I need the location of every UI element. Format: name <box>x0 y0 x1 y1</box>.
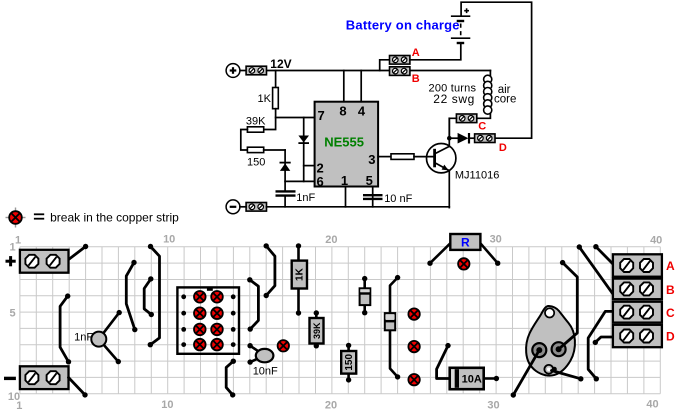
svg-text:D: D <box>666 329 675 343</box>
resistor 39K on board <box>310 310 324 348</box>
svg-text:6: 6 <box>317 174 324 189</box>
svg-text:7: 7 <box>318 108 325 123</box>
wire 150 to diode D2 node <box>264 149 285 151</box>
break in socket left row 3 <box>194 324 206 336</box>
capacitor C2 10nF <box>363 195 383 199</box>
svg-text:core: core <box>494 94 516 106</box>
svg-text:30: 30 <box>490 234 502 246</box>
wire link block D to (36,7) <box>593 337 613 345</box>
diode D1 (points right) <box>458 133 469 144</box>
svg-text:C: C <box>666 306 675 320</box>
svg-text:B: B <box>666 283 675 297</box>
wire base resistor to Q1 <box>414 156 433 158</box>
node 12V supply rail (wire) <box>240 70 246 72</box>
break in socket left row 2 <box>194 307 206 319</box>
wire C block to collector node <box>449 118 456 138</box>
wire pin 7 feed <box>276 117 315 119</box>
wire pin 8 to rail <box>343 71 345 102</box>
wire diode D2 branch vertical <box>284 150 286 190</box>
diode D3 (points down) <box>298 136 309 144</box>
wire link (13,8)-(13,10) <box>226 359 236 398</box>
board terminal block - input <box>20 366 69 389</box>
svg-text:10: 10 <box>163 234 175 246</box>
svg-text:12V: 12V <box>270 57 291 71</box>
wire link to fuse <box>437 343 451 379</box>
resistor 39K (horizontal) <box>247 127 263 132</box>
wire A to battery <box>410 44 461 60</box>
svg-text:1: 1 <box>341 173 348 188</box>
resistor base (pin3) <box>391 154 414 160</box>
svg-text:10nF: 10nF <box>253 366 278 378</box>
break at (28,2) <box>458 258 469 269</box>
wire 12V rail <box>267 70 491 72</box>
svg-text:1K: 1K <box>295 267 306 281</box>
terminal - (negative supply) <box>226 200 240 214</box>
wire collector to node <box>448 118 450 146</box>
wire link (15,3)-(15,6) <box>247 277 258 332</box>
break in socket right row 2 <box>211 307 223 319</box>
wire ground rail <box>267 206 450 208</box>
svg-text:Battery on charge: Battery on charge <box>346 18 460 33</box>
wire diode D3 branch vertical <box>303 118 305 182</box>
wire diode D1 to D block <box>470 137 475 139</box>
svg-text:150: 150 <box>247 157 265 169</box>
resistor 150 (horizontal) <box>247 147 263 152</box>
node collector junction <box>447 136 452 141</box>
wire collector to (34,2) <box>559 260 578 349</box>
svg-text:R: R <box>461 236 470 250</box>
svg-text:39K: 39K <box>246 116 266 128</box>
svg-text:NE555: NE555 <box>324 135 364 150</box>
board label + <box>6 256 16 266</box>
svg-text:1: 1 <box>10 242 16 254</box>
break in socket right row 3 <box>211 324 223 336</box>
wire coil to C block <box>477 114 490 119</box>
svg-text:1: 1 <box>15 235 21 247</box>
break at (25,5) <box>408 308 419 319</box>
diode on board col22 <box>360 276 371 316</box>
IC U1 NE555 body <box>315 102 379 187</box>
svg-text:22 swg: 22 swg <box>433 92 475 106</box>
svg-text:10: 10 <box>8 391 20 403</box>
wire emitter to ground <box>448 171 450 208</box>
wire link (36,1) to block A <box>593 244 612 264</box>
wire link -block to (5,10) <box>69 378 88 398</box>
resistor 1K (vertical) <box>273 88 279 109</box>
break at (25,7) <box>408 341 419 352</box>
svg-text:3: 3 <box>368 152 375 167</box>
break in socket left row 4 <box>194 339 206 351</box>
diode on board col24 <box>385 275 401 380</box>
svg-text:20: 20 <box>325 400 337 412</box>
wire link (9,1)-(9,7) <box>148 244 160 348</box>
svg-text:B: B <box>412 73 420 85</box>
wire pin 1 to ground <box>345 187 347 207</box>
svg-text:4: 4 <box>358 104 366 119</box>
svg-text:5: 5 <box>366 173 373 188</box>
wire pin 5 to cap <box>372 187 374 207</box>
capacitor C1 1nF <box>276 191 296 195</box>
terminal block C <box>456 114 476 123</box>
svg-text:10 nF: 10 nF <box>384 193 412 205</box>
svg-text:MJ11016: MJ11016 <box>455 170 499 182</box>
wire 39K to 150 <box>241 130 248 151</box>
terminal block D <box>475 134 495 143</box>
resistor 1K on board <box>292 243 307 315</box>
board terminal block + input <box>20 250 69 273</box>
svg-text:break in the copper strip: break in the copper strip <box>50 211 179 225</box>
svg-text:D: D <box>499 142 507 154</box>
svg-text:1K: 1K <box>258 93 272 105</box>
wire link (8,2)-(8,6) <box>126 260 137 333</box>
break in socket right row 4 <box>211 339 223 351</box>
inductor L1 air core coil <box>484 75 492 114</box>
wire link (9,3)-(9,5) <box>144 276 154 317</box>
svg-text:1nF: 1nF <box>296 192 315 204</box>
transistor Q1 MJ11016 <box>427 144 456 173</box>
IC socket NE555 on board <box>177 287 239 353</box>
svg-text:10: 10 <box>161 399 173 411</box>
board terminal block A <box>613 254 662 276</box>
legend break symbol <box>6 208 26 228</box>
wire 1K top lead <box>275 71 277 88</box>
svg-text:39K: 39K <box>312 322 322 339</box>
break in socket right row 1 <box>211 291 223 303</box>
svg-text:20: 20 <box>325 234 337 246</box>
capacitor 10nF on board <box>247 343 273 365</box>
wire link +block to (5,1) <box>69 244 88 259</box>
svg-text:150: 150 <box>344 354 355 371</box>
wire link J (16,1)-(16,4) <box>264 243 275 298</box>
diode D2 (points up) <box>280 163 291 171</box>
wire pin 2 feed <box>304 165 315 167</box>
legend equals <box>34 214 44 218</box>
svg-text:8: 8 <box>339 104 346 119</box>
capacitor 1nF on board <box>91 310 122 364</box>
break at (25,9) <box>408 374 419 385</box>
wire A-block jog <box>380 60 390 71</box>
svg-text:A: A <box>666 259 675 273</box>
resistor R on board <box>427 234 500 266</box>
board terminal block D <box>613 325 662 347</box>
wire pin 4 to rail <box>360 71 362 102</box>
svg-text:40: 40 <box>650 235 662 247</box>
terminal + (positive supply) <box>226 64 240 78</box>
wire node to diode D1 <box>449 137 458 139</box>
break at (17.5,7) <box>278 340 289 351</box>
wire link (4,4)-(4,8) <box>60 293 71 364</box>
board terminal block B <box>613 279 662 300</box>
stripboard grid <box>20 247 660 394</box>
board label - <box>4 377 16 380</box>
svg-text:10A: 10A <box>462 374 482 386</box>
battery on charge symbol <box>451 8 470 43</box>
wire rail to coil <box>489 71 491 77</box>
terminal block B <box>390 67 410 76</box>
resistor 150 on board <box>341 343 356 383</box>
svg-text:40: 40 <box>646 399 658 411</box>
wire ground rail stub <box>240 206 246 208</box>
wire link block C to (36,9) <box>588 311 612 381</box>
board terminal block C <box>613 302 662 323</box>
transistor MJ11016 TO-3 on board <box>526 306 575 376</box>
svg-text:5: 5 <box>10 308 16 320</box>
svg-text:1nF: 1nF <box>74 332 93 344</box>
fuse 10A on board <box>450 368 499 389</box>
svg-text:C: C <box>478 120 486 132</box>
wire base to (31,10) <box>511 350 540 398</box>
wire emitter to (35,9) <box>552 367 584 382</box>
terminal block supply ground <box>246 203 266 212</box>
svg-text:A: A <box>412 47 420 59</box>
wire 1nF to ground rail <box>284 197 286 207</box>
terminal block A <box>390 56 410 65</box>
wire pin 3 to base resistor <box>378 156 391 158</box>
wire battery+ loop to D <box>461 2 531 138</box>
break in socket left row 1 <box>194 291 206 303</box>
wire pin 6 feed <box>285 180 315 182</box>
wire 1K bottom to 39K junction <box>264 109 276 130</box>
wire link (35,1) to block B <box>577 244 613 293</box>
svg-text:30: 30 <box>487 400 499 412</box>
terminal block supply input <box>246 66 266 75</box>
